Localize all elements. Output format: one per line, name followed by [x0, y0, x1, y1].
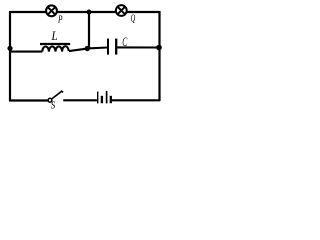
wire bottom right (battery to bottom-right corner)	[112, 99, 160, 101]
wire bottom left (corner to switch)	[9, 99, 48, 101]
inductor core bar	[40, 43, 70, 45]
svg-text:S: S	[51, 100, 56, 111]
capacitor C left plate	[107, 39, 109, 55]
capacitor C right plate	[115, 39, 117, 55]
lamp P	[46, 5, 57, 16]
svg-text:L: L	[51, 28, 58, 43]
battery cell 2 short plate	[110, 96, 112, 103]
battery cell 2 long plate	[106, 91, 108, 103]
node dot left rail	[7, 46, 12, 51]
wire right rail	[158, 11, 160, 101]
wire top left horizontal (left corner to lamp P)	[10, 11, 46, 13]
inductor L coil	[42, 46, 68, 51]
switch S pivot	[48, 98, 52, 102]
lamp Q	[116, 5, 127, 16]
battery cell 1 long plate	[97, 92, 99, 104]
wire top far right (lamp Q to top-right corner)	[126, 11, 159, 13]
wire inductor to node M	[69, 49, 87, 52]
svg-text:Q: Q	[131, 14, 136, 25]
svg-text:P: P	[57, 14, 63, 25]
node dot right rail	[156, 45, 162, 51]
wire top right (node M top to lamp Q)	[89, 11, 116, 13]
wire left rail	[9, 11, 11, 101]
switch S blade	[52, 91, 64, 99]
wire mid vertical (node M)	[88, 12, 90, 49]
wire node M to capacitor	[87, 46, 107, 49]
node dot M top	[87, 10, 92, 15]
wire top middle (lamp P to node M top)	[57, 11, 89, 13]
wire inductor left lead	[10, 51, 42, 53]
battery cell 1 short plate	[101, 96, 103, 103]
wire bottom middle (switch to battery)	[63, 99, 97, 101]
wire capacitor to right rail	[117, 46, 159, 48]
node dot M bottom	[85, 46, 90, 51]
